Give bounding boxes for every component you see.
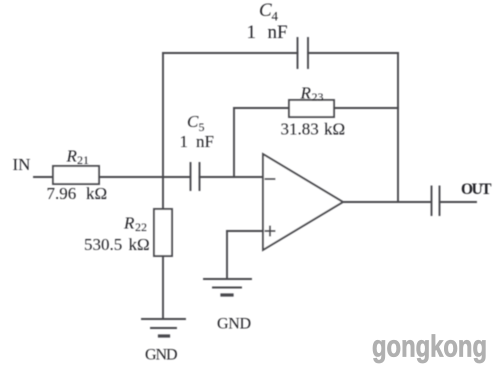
svg-text:C: C (259, 0, 272, 21)
svg-text:gongkong: gongkong (372, 329, 487, 364)
svg-text:22: 22 (135, 220, 147, 234)
svg-text:kΩ: kΩ (324, 120, 345, 139)
svg-text:nF: nF (268, 22, 288, 43)
svg-text:nF: nF (196, 132, 214, 151)
svg-text:530.5: 530.5 (84, 235, 122, 254)
svg-text:GND: GND (145, 347, 178, 364)
svg-text:GND: GND (217, 316, 251, 333)
svg-text:21: 21 (77, 153, 89, 167)
svg-text:kΩ: kΩ (129, 235, 150, 254)
svg-text:31.83: 31.83 (281, 120, 319, 139)
svg-text:1: 1 (247, 22, 257, 43)
svg-text:1: 1 (180, 132, 189, 151)
svg-text:C: C (187, 112, 199, 131)
svg-text:OUT: OUT (461, 181, 492, 198)
svg-text:7.96: 7.96 (47, 184, 77, 203)
svg-text:IN: IN (13, 155, 31, 174)
svg-text:R: R (66, 147, 78, 166)
svg-text:kΩ: kΩ (86, 184, 107, 203)
svg-text:R: R (123, 214, 135, 233)
svg-text:23: 23 (312, 90, 324, 104)
svg-text:R: R (300, 84, 312, 103)
